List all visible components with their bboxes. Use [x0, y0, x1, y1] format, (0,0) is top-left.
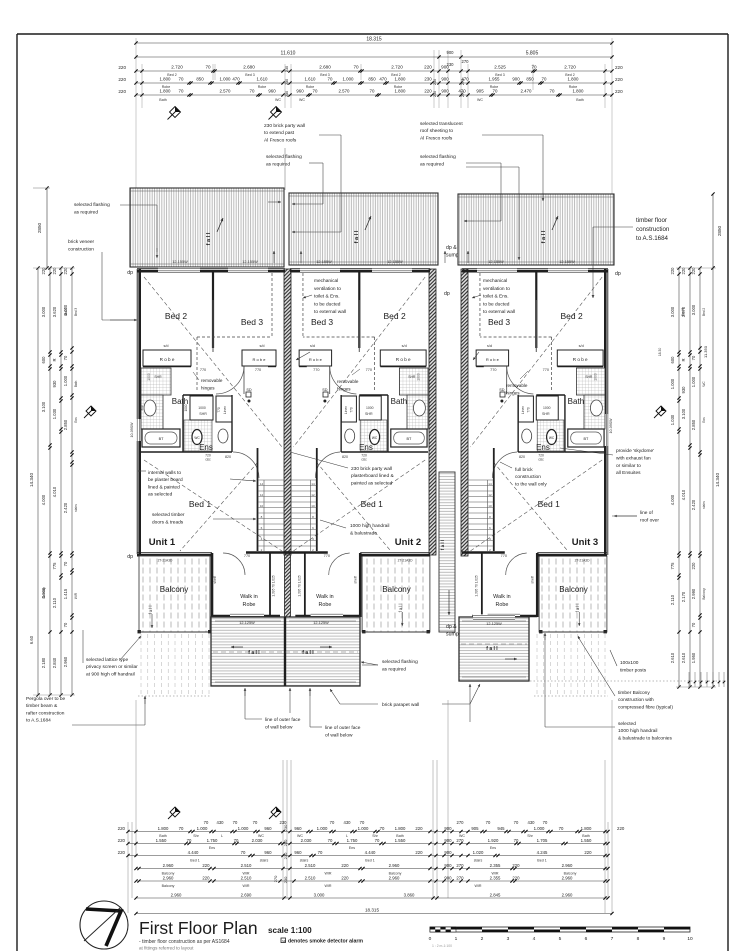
unit1 robe wall line	[143, 366, 191, 368]
svg-text:4.440: 4.440	[188, 850, 199, 855]
svg-text:1.610: 1.610	[257, 77, 269, 82]
svg-text:Bed 3: Bed 3	[488, 317, 510, 327]
svg-text:internal walls to: internal walls to	[148, 470, 181, 476]
svg-text:1.550: 1.550	[395, 838, 406, 843]
svg-text:SHR: SHR	[154, 375, 162, 379]
Unit 2 shr box	[359, 396, 381, 420]
svg-text:0: 0	[429, 936, 432, 942]
svg-text:dp &: dp &	[446, 245, 457, 251]
svg-text:Ens: Ens	[199, 443, 213, 452]
svg-text:2.845: 2.845	[490, 893, 501, 898]
Unit 2 basin	[345, 429, 355, 443]
svg-text:1.550: 1.550	[581, 838, 592, 843]
Unit 3 bath bottom wall	[565, 451, 605, 453]
svg-text:Bed 2: Bed 2	[560, 311, 582, 321]
Unit 3 bath tile area	[576, 368, 605, 395]
svg-text:7: 7	[611, 936, 614, 942]
svg-text:s/d: s/d	[402, 344, 407, 348]
svg-text:1.395 70 1.025: 1.395 70 1.025	[475, 575, 479, 596]
svg-text:1.750: 1.750	[347, 838, 358, 843]
svg-text:R o b e: R o b e	[160, 357, 175, 362]
svg-text:12: 12	[488, 493, 492, 497]
svg-text:mechanical: mechanical	[483, 278, 507, 284]
svg-text:construction: construction	[68, 247, 94, 253]
svg-text:1000: 1000	[184, 404, 188, 411]
Unit 2 robe wall line	[380, 366, 426, 368]
svg-text:220: 220	[118, 850, 126, 855]
svg-text:2.355: 2.355	[490, 876, 501, 881]
svg-text:900: 900	[441, 77, 449, 82]
svg-text:12-155W: 12-155W	[316, 260, 332, 264]
svg-text:70: 70	[63, 622, 68, 627]
Unit 3 shower diagonal	[577, 369, 604, 391]
svg-text:230: 230	[285, 66, 289, 72]
svg-text:1.800: 1.800	[581, 826, 592, 831]
svg-text:Bed 3: Bed 3	[241, 317, 263, 327]
unit1 ens walls	[182, 395, 184, 452]
svg-text:f a l l: f a l l	[148, 606, 153, 615]
svg-text:70: 70	[179, 826, 184, 831]
svg-text:lined & painted: lined & painted	[148, 484, 180, 490]
svg-text:Ens: Ens	[702, 417, 706, 423]
svg-text:with exhaust fan: with exhaust fan	[616, 455, 651, 461]
svg-text:70: 70	[330, 820, 335, 825]
svg-text:SHR: SHR	[365, 412, 373, 416]
svg-text:timber posts: timber posts	[620, 668, 647, 674]
svg-text:230: 230	[283, 839, 288, 846]
svg-text:70: 70	[543, 820, 548, 825]
svg-text:& balustrade: & balustrade	[350, 531, 377, 537]
svg-text:R o b e: R o b e	[253, 357, 267, 362]
svg-text:70: 70	[63, 355, 68, 360]
leader: flashing right B	[466, 166, 519, 168]
svg-text:doors & treads: doors & treads	[152, 520, 184, 526]
svg-text:SHR: SHR	[408, 375, 416, 379]
svg-text:70: 70	[187, 838, 192, 843]
Unit 3 door arcs	[507, 366, 534, 394]
Unit 2 wc	[370, 430, 380, 445]
svg-text:270: 270	[456, 863, 464, 868]
svg-text:at 900 high off handrail: at 900 high off handrail	[86, 671, 135, 677]
svg-text:70: 70	[179, 77, 184, 82]
svg-text:f a l l: f a l l	[206, 232, 212, 245]
svg-text:f a l l: f a l l	[248, 650, 260, 656]
svg-text:70: 70	[360, 820, 365, 825]
svg-text:3.000: 3.000	[691, 304, 696, 315]
svg-text:2.470: 2.470	[521, 89, 533, 94]
svg-text:WC: WC	[477, 98, 483, 102]
svg-text:ventilation to: ventilation to	[314, 286, 341, 292]
svg-text:230: 230	[433, 91, 437, 97]
unit1 left wall	[136, 269, 138, 554]
svg-text:2.030: 2.030	[252, 838, 263, 843]
unit2 right wall	[429, 269, 436, 555]
svg-text:220: 220	[202, 863, 210, 868]
leader: flashing left margin	[120, 204, 157, 206]
svg-text:12-155W: 12-155W	[172, 260, 188, 264]
svg-text:12-125W: 12-125W	[313, 621, 329, 625]
svg-text:Walk in: Walk in	[493, 594, 510, 600]
svg-text:privacy screen or similar: privacy screen or similar	[86, 664, 138, 670]
Unit 3 dashed ceiling diagonal	[470, 277, 602, 447]
svg-text:1.800: 1.800	[568, 77, 580, 82]
svg-text:1.800: 1.800	[158, 826, 169, 831]
svg-text:2.960: 2.960	[562, 876, 573, 881]
svg-text:770: 770	[501, 554, 507, 558]
svg-text:timber beam &: timber beam &	[26, 703, 58, 709]
svg-text:1000: 1000	[543, 406, 551, 410]
wing dashed centerline	[213, 651, 358, 653]
svg-text:line of: line of	[640, 510, 653, 516]
svg-text:WIR: WIR	[475, 884, 482, 888]
svg-text:220: 220	[424, 89, 432, 94]
Unit 3 stairs	[493, 448, 495, 551]
leader: party wall note B	[284, 148, 286, 190]
svg-text:1.000: 1.000	[238, 826, 249, 831]
svg-text:10: 10	[488, 504, 492, 508]
svg-text:12-155W: 12-155W	[387, 260, 403, 264]
svg-text:2.960: 2.960	[389, 863, 400, 868]
party wall units 1-2	[284, 269, 291, 555]
svg-text:s/d: s/d	[163, 344, 168, 348]
svg-text:11.350: 11.350	[703, 345, 708, 358]
svg-text:Bath: Bath	[391, 397, 407, 406]
svg-text:1.955: 1.955	[489, 77, 501, 82]
svg-text:770: 770	[490, 368, 496, 372]
svg-text:12-125W: 12-125W	[239, 621, 255, 625]
svg-text:770: 770	[244, 554, 250, 558]
svg-text:6: 6	[585, 936, 588, 942]
svg-text:1.020: 1.020	[473, 850, 484, 855]
svg-text:2.510: 2.510	[241, 863, 252, 868]
svg-text:1.800: 1.800	[160, 77, 172, 82]
svg-text:220: 220	[341, 863, 349, 868]
svg-text:Balcony: Balcony	[702, 588, 706, 600]
svg-text:2.525: 2.525	[494, 65, 506, 70]
svg-text:4: 4	[533, 936, 536, 942]
svg-text:220: 220	[512, 863, 520, 868]
Unit 3 vanity	[590, 400, 602, 416]
svg-text:2.720: 2.720	[564, 65, 576, 70]
svg-text:2T-21A3D: 2T-21A3D	[575, 559, 590, 563]
svg-text:timber floor: timber floor	[636, 217, 667, 224]
svg-text:230: 230	[433, 79, 437, 85]
svg-text:230: 230	[283, 876, 288, 883]
svg-text:WC: WC	[549, 436, 555, 440]
svg-text:Balcony: Balcony	[160, 585, 188, 594]
svg-text:selected: selected	[618, 721, 636, 727]
svg-text:5: 5	[559, 936, 562, 942]
svg-text:R o b e: R o b e	[396, 357, 411, 362]
svg-text:230: 230	[285, 91, 289, 97]
svg-text:1.000: 1.000	[358, 826, 369, 831]
svg-text:1.800: 1.800	[573, 89, 585, 94]
scale bar	[430, 927, 690, 932]
svg-text:Ens: Ens	[536, 443, 550, 452]
svg-text:70: 70	[559, 826, 564, 831]
unit3 left wall	[461, 269, 468, 556]
svg-text:Shr: Shr	[193, 834, 199, 838]
svg-text:1: 1	[455, 936, 458, 942]
svg-text:820: 820	[519, 455, 525, 459]
svg-text:230: 230	[280, 820, 288, 825]
svg-text:as required: as required	[74, 210, 98, 216]
svg-text:8: 8	[637, 936, 640, 942]
svg-text:960: 960	[294, 850, 302, 855]
svg-text:Bed 3: Bed 3	[311, 317, 333, 327]
svg-text:to extend past: to extend past	[264, 130, 295, 136]
unit1 WIR wing walls	[211, 553, 214, 617]
svg-text:70: 70	[531, 65, 537, 70]
svg-text:12: 12	[311, 493, 315, 497]
svg-text:dp: dp	[444, 291, 450, 297]
svg-text:toilet & Ens.: toilet & Ens.	[483, 294, 509, 300]
svg-text:to A.S.1684: to A.S.1684	[26, 718, 51, 724]
svg-text:270: 270	[273, 875, 278, 882]
svg-text:850: 850	[196, 77, 204, 82]
unit1 WIR door arc	[223, 553, 245, 575]
svg-text:brick veneer: brick veneer	[68, 239, 95, 245]
svg-text:sump: sump	[446, 632, 459, 638]
svg-text:14: 14	[260, 482, 264, 486]
svg-text:2.420: 2.420	[63, 502, 68, 513]
svg-text:770: 770	[217, 407, 221, 413]
svg-text:stairs: stairs	[260, 859, 269, 863]
Unit 2 stairs	[316, 448, 318, 551]
svg-text:1.800: 1.800	[395, 77, 407, 82]
unit1 SD symbol	[246, 392, 251, 397]
svg-text:900: 900	[444, 838, 452, 843]
leader: translucent note	[482, 134, 543, 136]
svg-text:compressed fibre (typical): compressed fibre (typical)	[618, 704, 673, 710]
unit1 robe 1	[143, 350, 191, 366]
svg-text:2.960: 2.960	[163, 876, 174, 881]
svg-text:Bed 2: Bed 2	[702, 308, 706, 317]
svg-text:430: 430	[344, 820, 352, 825]
svg-text:470: 470	[232, 77, 240, 82]
svg-text:Al Fresco roofs: Al Fresco roofs	[264, 137, 297, 143]
svg-text:sump: sump	[446, 253, 459, 259]
Unit 2 ens walls	[387, 395, 389, 452]
svg-text:430: 430	[528, 820, 536, 825]
svg-text:70: 70	[313, 89, 318, 94]
svg-text:770: 770	[313, 368, 319, 372]
Unit 2 robe right	[380, 350, 426, 366]
unit1 vanity	[144, 400, 156, 416]
svg-text:220: 220	[615, 89, 623, 94]
Unit 2 robe left	[299, 350, 331, 366]
svg-text:2.610: 2.610	[681, 652, 686, 663]
svg-text:as required: as required	[266, 162, 290, 168]
svg-text:2: 2	[481, 936, 484, 942]
svg-text:2.180: 2.180	[41, 657, 46, 668]
svg-text:2.720: 2.720	[391, 65, 403, 70]
unit1 wc	[192, 430, 202, 445]
svg-text:f a l l: f a l l	[354, 230, 360, 243]
unit1 linen	[216, 396, 232, 422]
svg-text:220: 220	[415, 850, 423, 855]
svg-text:960: 960	[268, 89, 276, 94]
unit3 al fresco wing	[459, 617, 529, 681]
svg-text:1.610: 1.610	[305, 77, 317, 82]
svg-text:to external wall: to external wall	[314, 309, 346, 315]
svg-text:of wall below: of wall below	[265, 725, 293, 731]
Unit 2 right wall bottom seg	[360, 552, 430, 554]
svg-text:70: 70	[241, 850, 246, 855]
svg-text:1.000: 1.000	[220, 77, 232, 82]
svg-text:3.000: 3.000	[670, 306, 675, 317]
svg-text:1000 high handrail: 1000 high handrail	[350, 523, 389, 529]
svg-text:70: 70	[204, 820, 209, 825]
svg-text:at fittings referred to layout: at fittings referred to layout	[139, 946, 194, 951]
svg-text:dp &: dp &	[446, 624, 457, 630]
svg-text:12-125W: 12-125W	[486, 622, 502, 626]
svg-text:Linen: Linen	[223, 406, 227, 414]
svg-text:Unit 2: Unit 2	[395, 537, 421, 548]
Unit 2 balcony	[362, 556, 430, 632]
svg-text:1.000: 1.000	[670, 378, 675, 389]
svg-text:Unit 3: Unit 3	[572, 537, 598, 548]
svg-text:SD: SD	[499, 388, 505, 392]
svg-text:toilet & Ens.: toilet & Ens.	[314, 294, 340, 300]
svg-text:770: 770	[255, 368, 261, 372]
svg-text:230: 230	[283, 852, 288, 859]
svg-text:1000: 1000	[593, 373, 597, 381]
svg-text:f a l l: f a l l	[486, 646, 498, 652]
svg-text:70: 70	[328, 77, 333, 82]
svg-text:18.315: 18.315	[366, 37, 382, 43]
svg-text:2.960: 2.960	[63, 656, 68, 667]
svg-text:1 : 2 m-1:100: 1 : 2 m-1:100	[432, 944, 452, 948]
unit1 balcony	[139, 556, 210, 632]
svg-text:1.415: 1.415	[63, 588, 68, 599]
svg-text:Bed 2: Bed 2	[165, 311, 187, 321]
svg-text:70: 70	[380, 826, 385, 831]
unit1 stair bottom wall	[246, 551, 291, 554]
svg-text:5.805: 5.805	[526, 51, 539, 57]
Unit 2 stair bottom wall	[285, 551, 328, 554]
svg-text:2.850: 2.850	[691, 419, 696, 430]
svg-text:Bed 1: Bed 1	[537, 859, 546, 863]
top dimension block	[135, 38, 137, 188]
svg-text:930: 930	[52, 380, 57, 388]
svg-text:Unit 1: Unit 1	[149, 537, 176, 548]
Unit 2 door arcs	[330, 366, 357, 394]
svg-text:Robe: Robe	[318, 602, 331, 608]
svg-text:4.000: 4.000	[41, 494, 46, 505]
Unit 2 dashed ceiling diagonal	[293, 277, 425, 447]
svg-text:220: 220	[617, 826, 625, 831]
svg-text:roof sheeting to: roof sheeting to	[420, 128, 453, 134]
svg-text:construction: construction	[515, 474, 541, 480]
svg-text:stairs: stairs	[474, 859, 483, 863]
svg-text:70: 70	[253, 820, 258, 825]
svg-text:900: 900	[444, 876, 452, 881]
unit3 right wall	[607, 269, 609, 555]
Unit 2 bath bottom wall	[388, 451, 428, 453]
svg-text:Ens: Ens	[490, 846, 496, 850]
svg-text:2.960: 2.960	[562, 863, 573, 868]
unit1 robe 2	[242, 350, 276, 366]
svg-text:be plaster board: be plaster board	[148, 477, 183, 483]
right dimension chains	[678, 268, 680, 687]
svg-text:1.800: 1.800	[160, 89, 172, 94]
svg-text:70: 70	[514, 838, 519, 843]
Unit 3 dashed bulkhead	[479, 273, 481, 337]
svg-text:stairs: stairs	[702, 501, 706, 509]
svg-text:Robe: Robe	[495, 602, 508, 608]
svg-text:2.840: 2.840	[52, 657, 57, 668]
svg-text:WC: WC	[299, 98, 305, 102]
svg-text:L: L	[221, 834, 223, 838]
svg-text:selected timber: selected timber	[152, 512, 185, 518]
svg-text:770: 770	[543, 368, 549, 372]
svg-text:provide 'skydome': provide 'skydome'	[616, 448, 654, 454]
svg-text:70: 70	[691, 622, 696, 627]
svg-text:Bed 3: Bed 3	[245, 73, 254, 77]
svg-text:905: 905	[476, 89, 484, 94]
svg-text:shelf: shelf	[530, 576, 534, 583]
Unit 3 robe wall line	[557, 366, 603, 368]
unit1 bath tub BT	[142, 429, 180, 447]
svg-text:1.000: 1.000	[343, 77, 355, 82]
svg-text:1.800: 1.800	[395, 826, 406, 831]
svg-text:construction with: construction with	[618, 697, 654, 703]
svg-text:3: 3	[507, 936, 510, 942]
svg-text:2.355: 2.355	[490, 863, 501, 868]
roof (Al Fresco) hatched band	[458, 194, 614, 265]
svg-text:70: 70	[493, 89, 498, 94]
svg-text:full brick: full brick	[515, 467, 533, 473]
svg-text:1.000: 1.000	[317, 826, 328, 831]
svg-text:Bed 1: Bed 1	[189, 499, 211, 509]
svg-text:timber Balcony: timber Balcony	[618, 690, 650, 696]
svg-text:770: 770	[200, 368, 206, 372]
svg-text:1.000: 1.000	[197, 826, 208, 831]
svg-text:2.570: 2.570	[339, 89, 351, 94]
svg-text:c&c: c&c	[538, 458, 544, 462]
svg-text:1.000: 1.000	[63, 375, 68, 386]
svg-text:2.690: 2.690	[241, 893, 252, 898]
svg-text:2.680: 2.680	[243, 65, 255, 70]
unit1 Bed2/Bed3 divider wall	[212, 272, 214, 348]
svg-text:4.010: 4.010	[681, 489, 686, 500]
svg-text:hinges: hinges	[201, 386, 215, 391]
svg-text:to external wall: to external wall	[483, 309, 515, 315]
svg-text:ventilation to: ventilation to	[483, 286, 510, 292]
Unit 2 bath tub BT	[391, 429, 427, 447]
svg-text:selected translucent: selected translucent	[420, 121, 463, 127]
dim 2850 right	[712, 194, 714, 268]
svg-text:1000: 1000	[366, 406, 374, 410]
section marker	[168, 107, 181, 120]
svg-text:selected flashing: selected flashing	[382, 659, 418, 665]
svg-text:brick parapet wall: brick parapet wall	[382, 702, 419, 708]
svg-text:of wall below: of wall below	[325, 733, 353, 739]
svg-text:R o b e: R o b e	[486, 357, 500, 362]
svg-text:denotes smoke detector alarm: denotes smoke detector alarm	[288, 939, 363, 945]
svg-text:line of outer face: line of outer face	[265, 717, 301, 723]
svg-text:3.000: 3.000	[63, 304, 68, 315]
svg-text:270: 270	[457, 820, 465, 825]
Unit 3 linen	[518, 396, 533, 422]
svg-text:2.510: 2.510	[305, 876, 316, 881]
svg-text:70: 70	[179, 89, 184, 94]
svg-text:to the wall only: to the wall only	[515, 481, 547, 487]
svg-text:R o b e: R o b e	[573, 357, 588, 362]
svg-text:f a l l: f a l l	[398, 604, 403, 613]
Unit 3 wc	[547, 430, 557, 445]
